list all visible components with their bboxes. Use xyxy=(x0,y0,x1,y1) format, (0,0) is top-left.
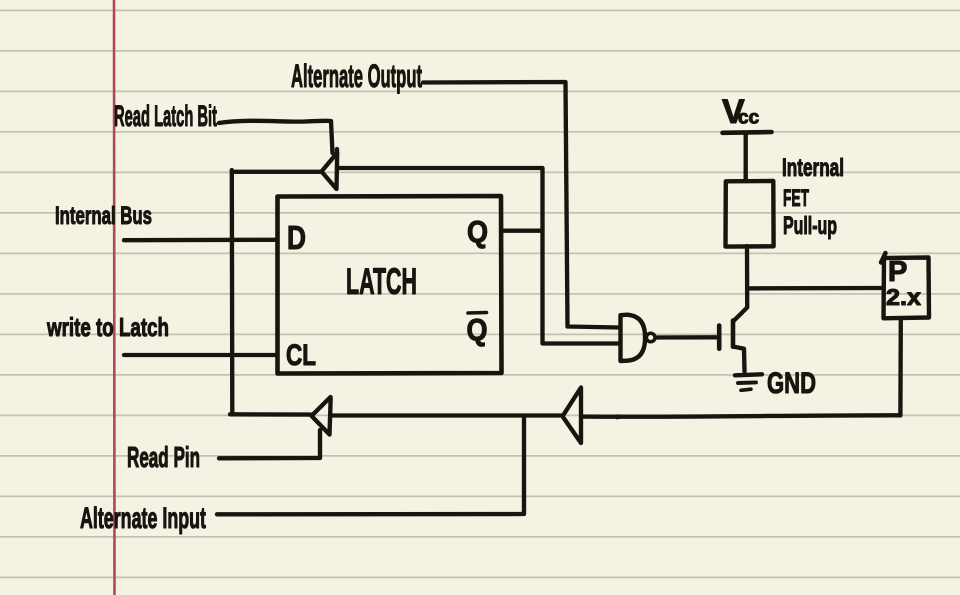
label LATCH xyxy=(346,261,417,302)
wire alternate output net xyxy=(423,82,619,328)
wire U1 input from Q net xyxy=(338,166,542,170)
wire alternate input xyxy=(217,417,524,514)
wire NAND output to gate xyxy=(656,335,716,340)
label write to Latch xyxy=(46,312,169,342)
wire U1 output to bus xyxy=(232,170,321,174)
buffer U1 read-latch-bit triangle xyxy=(322,149,338,189)
label Alternate Output xyxy=(291,58,422,94)
svg-text:Read Pin: Read Pin xyxy=(127,442,200,474)
pin D label xyxy=(287,219,306,256)
svg-text:Internal Bus: Internal Bus xyxy=(55,202,152,230)
wire read pin control xyxy=(219,430,320,458)
svg-text:Internal: Internal xyxy=(782,154,844,182)
NAND gate U3 xyxy=(621,315,646,361)
svg-text:write to Latch: write to Latch xyxy=(46,312,169,342)
svg-text:GND: GND xyxy=(767,367,816,400)
power Vcc bar xyxy=(723,130,772,135)
label P xyxy=(888,256,907,288)
svg-text:Read Latch Bit: Read Latch Bit xyxy=(114,100,217,133)
wire drain to pin P2.x xyxy=(748,286,882,291)
pin CL label xyxy=(286,339,316,372)
label GND xyxy=(767,367,816,400)
wire write to latch to CL xyxy=(124,353,277,357)
buffer U5 read-pin triangle xyxy=(312,397,331,435)
svg-text:FET: FET xyxy=(783,185,809,212)
wire drain from pull-up xyxy=(734,246,747,321)
label Read Pin xyxy=(127,442,200,474)
svg-text:Alternate Output: Alternate Output xyxy=(291,58,422,94)
svg-text:Pull-up: Pull-up xyxy=(783,212,837,240)
label 2.x xyxy=(886,284,921,310)
label FET xyxy=(783,185,809,212)
pin Qbar overbar xyxy=(468,311,487,315)
pin Q label xyxy=(467,214,488,249)
transistor Q1 channel xyxy=(731,321,736,347)
wire read latch bit to buffer xyxy=(219,121,333,153)
latch U2 box xyxy=(278,196,502,374)
label Pull-up xyxy=(783,212,837,240)
label Internal xyxy=(782,154,844,182)
NAND output bubble xyxy=(646,333,655,342)
wire Q net vertical xyxy=(543,168,620,344)
wire internal bus to D xyxy=(124,238,277,243)
svg-text:LATCH: LATCH xyxy=(346,261,417,302)
label Read Latch Bit xyxy=(114,100,217,133)
pin Qbar label xyxy=(467,312,488,347)
junction dot on pin line xyxy=(615,414,620,419)
port box P2.x xyxy=(881,253,929,318)
node internal bus vertical xyxy=(230,170,235,415)
red margin line xyxy=(113,0,116,595)
wire Vcc to resistor xyxy=(744,135,748,181)
ground symbol xyxy=(735,374,762,375)
svg-text:cc: cc xyxy=(738,108,760,129)
transistor Q1 gate bar xyxy=(717,326,722,349)
wire pin vertical xyxy=(898,319,903,415)
wire pin line to buffer U4 xyxy=(583,415,901,416)
wire U4 output segment xyxy=(332,413,562,417)
svg-text:2.x: 2.x xyxy=(886,284,921,310)
svg-text:Q: Q xyxy=(467,214,488,249)
svg-text:Q: Q xyxy=(467,312,488,347)
label Vcc xyxy=(722,93,760,131)
label Internal Bus xyxy=(55,202,152,230)
label Alternate Input xyxy=(80,502,206,535)
svg-text:Alternate Input: Alternate Input xyxy=(80,502,206,535)
buffer U4 triangle xyxy=(563,388,582,444)
svg-text:D: D xyxy=(287,219,306,256)
svg-text:CL: CL xyxy=(286,339,316,372)
wire U5 output to bus xyxy=(230,412,311,417)
wire Q output of latch xyxy=(502,229,543,233)
wire source to ground xyxy=(733,347,745,372)
resistor R1 internal FET pull-up box xyxy=(726,181,774,247)
